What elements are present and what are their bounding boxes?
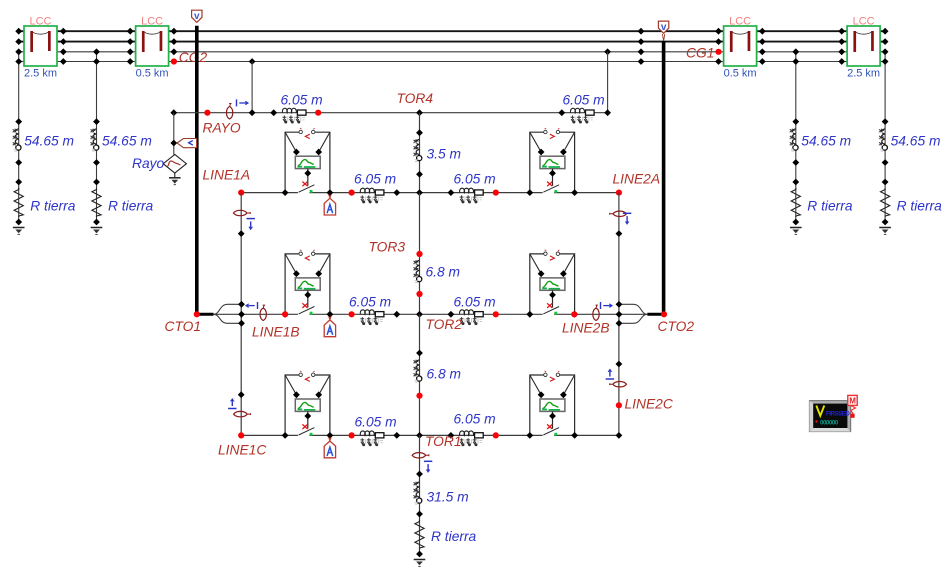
wire thick riser right (to CTO2)	[662, 41, 666, 314]
node dots row A	[393, 189, 454, 196]
svg-text:FIRSSED: FIRSSED	[826, 411, 850, 418]
node dots splitter left	[238, 301, 245, 327]
wire bonding vertical right end	[884, 52, 886, 122]
node dot above Rayo source	[170, 140, 177, 147]
node red dot (arrester bottom-left, row B)	[282, 311, 288, 317]
wire drop to Rayo source	[173, 113, 175, 155]
svg-text:54.65 m: 54.65 m	[102, 134, 152, 149]
ground (chain 4)	[879, 228, 891, 235]
wire row A	[241, 192, 619, 194]
probe label I (left bus, row B)	[245, 302, 258, 309]
svg-text:6.8 m: 6.8 m	[427, 367, 462, 382]
svg-text:LCC: LCC	[729, 16, 751, 28]
node dots on top line row4	[15, 58, 888, 65]
svg-text:LINE1B: LINE1B	[252, 325, 300, 340]
wire left bus (row A to row C)	[240, 193, 242, 436]
svg-text:6.05 m: 6.05 m	[349, 295, 391, 310]
node LINE1C (red)	[218, 432, 267, 457]
ground (Rayo source)	[169, 173, 181, 185]
svg-text:54.65 m: 54.65 m	[801, 134, 851, 149]
node dots chain 1	[15, 118, 22, 225]
inductor 6.05 m (row C right)	[454, 412, 496, 447]
wire TOR2 column	[419, 314, 421, 435]
inductor 54.65 m (chain 2)	[90, 129, 152, 151]
current probe I (left bus upper)	[233, 210, 255, 237]
svg-text:TOR3: TOR3	[369, 240, 406, 255]
svg-text:6.05 m: 6.05 m	[355, 415, 397, 430]
wire ground row3 segments	[19, 52, 885, 62]
svg-text:LINE1C: LINE1C	[218, 443, 267, 458]
svg-text:R tierra: R tierra	[807, 199, 853, 214]
node dots on top line row2	[15, 38, 888, 45]
splitter 3-phase (CTO1)	[197, 304, 242, 323]
LCC line block 2.5 km (right)	[847, 16, 880, 80]
arrester block LINE1C (left)	[282, 371, 334, 439]
node dots TOR1 column	[416, 471, 423, 558]
svg-text:RAYO: RAYO	[203, 121, 241, 136]
wire phase row2 segments	[19, 41, 24, 43]
wire bonding vertical mid-left	[96, 52, 98, 122]
probe label (right bus upper)	[616, 213, 632, 237]
svg-text:R tierra: R tierra	[30, 199, 76, 214]
voltage probe V (left)	[192, 10, 202, 22]
arrester block LINE2B (right, mirrored)	[526, 250, 578, 318]
svg-text:0.5 km: 0.5 km	[724, 68, 757, 80]
current probe I (right bus lower)	[606, 361, 627, 387]
resistor R tierra (chain 4)	[881, 188, 943, 217]
svg-text:LINE2C: LINE2C	[625, 397, 674, 412]
svg-text:2.5 km: 2.5 km	[24, 68, 57, 80]
wire bonding vertical mid-right	[795, 52, 797, 122]
arrester block LINE1B (left)	[282, 250, 334, 318]
tower footing chain 4: wire	[884, 122, 886, 222]
svg-text:CTO2: CTO2	[658, 319, 695, 334]
node dots row B	[393, 311, 454, 318]
node CTO2 (red)	[658, 311, 695, 334]
ground (chain 2)	[91, 228, 103, 235]
wire phase row1 segment LCC1-left stub	[19, 31, 885, 41]
node red dots row A mid	[349, 190, 499, 196]
wire drop row3 to tower-top right	[607, 52, 609, 113]
svg-text:000000: 000000	[820, 419, 839, 426]
svg-text:CG2: CG2	[179, 50, 208, 65]
current probe I (row B right)	[593, 305, 599, 320]
resistor R tierra (chain 3)	[791, 188, 853, 217]
MODELS badge (row A)	[324, 194, 335, 215]
svg-text:LCC: LCC	[141, 16, 163, 28]
inductor 6.05 m (row B left)	[349, 295, 391, 326]
node dots chain 4	[882, 118, 889, 225]
node dots chain 3	[792, 118, 799, 225]
svg-text:6.05 m: 6.05 m	[454, 172, 496, 187]
inductor 6.05 m (row1 right)	[563, 93, 605, 124]
MODELS badge (row B)	[324, 316, 335, 337]
node dots on top line row1	[15, 28, 888, 35]
resistor R tierra (chain 1)	[14, 188, 76, 217]
node red dot row1 after inductor	[315, 110, 321, 116]
svg-text:2.5 km: 2.5 km	[847, 68, 880, 80]
inductor 31.5 m (TOR1 column)	[413, 482, 469, 505]
current probe I (TOR1 column)	[412, 453, 432, 473]
svg-text:54.65 m: 54.65 m	[24, 134, 74, 149]
wire bonding vertical left end	[18, 52, 20, 122]
inductor 6.05 m (row A right)	[454, 172, 496, 204]
svg-text:TOR4: TOR4	[397, 91, 434, 106]
ground (TOR1 column)	[414, 560, 426, 567]
wire row B	[242, 313, 620, 315]
svg-text:R tierra: R tierra	[431, 529, 477, 544]
svg-text:31.5 m: 31.5 m	[427, 490, 469, 505]
LCC line block 2.5 km (left)	[24, 16, 57, 80]
svg-text:LINE1A: LINE1A	[203, 168, 251, 183]
MODELS badge (scope)	[848, 395, 857, 417]
svg-text:R tierra: R tierra	[897, 199, 943, 214]
inductor 6.05 m (row B right)	[454, 295, 496, 326]
node dots chain 2	[93, 118, 100, 225]
LCC line block 0.5 km (right)	[724, 16, 757, 80]
node dots on top line row3	[15, 48, 888, 55]
node red dots row C	[349, 432, 499, 438]
wire drop row4 to tower-top left	[251, 62, 253, 113]
tower footing chain 3: wire	[795, 122, 797, 222]
inductor 54.65 m (chain 1)	[12, 129, 74, 151]
svg-text:M: M	[849, 397, 856, 406]
surge source Rayo (lightning)	[132, 154, 186, 173]
inductor 6.05 m (row C left)	[355, 415, 397, 447]
node dots TOR2 column	[416, 350, 423, 399]
wire ground row4 segments	[19, 61, 24, 63]
probe label I (right bus, row B)	[601, 302, 614, 309]
wire right bus (row A to row C)	[618, 193, 620, 436]
svg-text:3.5 m: 3.5 m	[427, 147, 462, 162]
node dots row C	[393, 432, 622, 439]
inductor 6.8 m (TOR2 column)	[413, 360, 461, 382]
arrester block LINE1A (left)	[282, 128, 334, 196]
current probe I (RAYO, row1)	[226, 99, 249, 119]
MODELS badge (row C)	[324, 437, 335, 458]
svg-text:LINE2B: LINE2B	[562, 321, 610, 336]
wire TOR1 column to ground	[419, 435, 421, 554]
ground (chain 1)	[13, 228, 25, 235]
node LINE2A (red)	[613, 172, 661, 196]
tower footing chain 1: wire	[18, 122, 20, 222]
svg-text:6.05 m: 6.05 m	[281, 93, 323, 108]
wire row C	[241, 434, 619, 436]
wire tower top row	[174, 112, 608, 114]
node dots splitter right	[616, 301, 623, 327]
LCC line block 0.5 km (left)	[136, 16, 169, 80]
svg-text:54.65 m: 54.65 m	[891, 134, 941, 149]
node LINE1A (red)	[203, 168, 251, 196]
node dots row1	[170, 109, 611, 116]
wire thick riser left (to CTO1)	[195, 26, 199, 315]
svg-text:TOR2: TOR2	[426, 317, 463, 332]
svg-text:CTO1: CTO1	[165, 319, 202, 334]
inductor 54.65 m (chain 4)	[879, 129, 941, 151]
svg-text:6.05 m: 6.05 m	[563, 93, 605, 108]
tower footing chain 2: wire	[96, 122, 98, 222]
node red dots row B	[349, 311, 499, 317]
node CG2 (red)	[171, 50, 208, 65]
svg-text:0.5 km: 0.5 km	[136, 68, 169, 80]
node red dot (arrester bottom-right, row B)	[571, 311, 577, 317]
inductor 3.5 m (TOR4 column)	[413, 139, 461, 161]
svg-text:R tierra: R tierra	[108, 199, 154, 214]
inductor 6.05 m (row A left)	[354, 172, 396, 204]
current probe I (row B left)	[260, 305, 266, 320]
node CTO1 (red)	[165, 311, 202, 334]
arrester block LINE2A (right, mirrored)	[526, 128, 578, 196]
svg-text:6.8 m: 6.8 m	[426, 265, 461, 280]
scope display icon	[809, 401, 850, 432]
node red dots TOR3 column	[416, 251, 422, 297]
svg-text:TOR1: TOR1	[425, 434, 462, 449]
current probe I (right bus upper)	[609, 211, 626, 216]
arrester block (row C right, mirrored)	[526, 371, 578, 439]
node dots TOR4 column	[416, 129, 423, 177]
ground (chain 3)	[790, 228, 802, 235]
node LINE2C (red)	[616, 397, 674, 412]
node CG1 (red)	[686, 46, 722, 61]
resistor R tierra (chain 2)	[92, 188, 154, 217]
splitter 3-phase (CTO2, mirrored)	[619, 304, 664, 323]
svg-text:LINE2A: LINE2A	[613, 172, 661, 187]
inductor 54.65 m (chain 3)	[789, 129, 851, 151]
current probe I (left bus lower)	[228, 391, 251, 416]
svg-text:Rayo: Rayo	[132, 156, 165, 171]
svg-text:LCC: LCC	[853, 16, 875, 28]
svg-text:6.05 m: 6.05 m	[354, 172, 396, 187]
resistor R tierra (TOR1 column)	[415, 520, 477, 549]
svg-text:CG1: CG1	[686, 46, 714, 61]
voltage probe V (right)	[658, 21, 668, 41]
svg-text:LCC: LCC	[29, 16, 51, 28]
svg-text:6.05 m: 6.05 m	[454, 412, 496, 427]
inductor 6.05 m (row1 left)	[281, 93, 323, 124]
node RAYO (red)	[203, 110, 241, 136]
inductor 6.8 m (TOR3 column)	[413, 260, 460, 282]
svg-text:6.05 m: 6.05 m	[454, 295, 496, 310]
wire TOR3 column	[419, 193, 421, 315]
voltage probe flag (Rayo)	[177, 139, 197, 148]
wire TOR4 column	[419, 113, 421, 193]
